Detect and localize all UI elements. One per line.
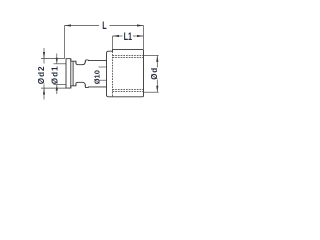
tip cylinder right edge (70, 59, 72, 88)
hidden thread line top (113, 54, 144, 56)
dim d2 line (43, 48, 45, 64)
arrow L right (137, 24, 144, 26)
dim D ext top (144, 54, 159, 56)
arrow d1 bottom (56, 85, 58, 91)
dim L1 extension left (112, 36, 114, 49)
hidden bore line top (113, 56, 144, 58)
dim d1 line (56, 54, 58, 64)
arrow L1 left (113, 35, 120, 37)
dim d1 ext bottom (54, 84, 67, 86)
ridge right edge (88, 60, 90, 62)
collar flat edge bottom (99, 79, 107, 81)
arrow D bottom (156, 86, 158, 93)
svg-text:Ød2: Ød2 (37, 66, 46, 85)
svg-text:L1: L1 (124, 31, 132, 43)
neck left edge (75, 61, 77, 63)
svg-text:Ø10: Ø10 (92, 70, 101, 84)
arrow D top (156, 55, 158, 62)
arrow d2 top (43, 52, 45, 59)
arrow d2 bottom (43, 88, 45, 95)
dim d2 ext bottom (41, 87, 66, 89)
collar flat edge top (99, 66, 107, 68)
dim L extension right (143, 26, 145, 50)
dim D ext bottom (144, 91, 159, 93)
dim L line (65, 25, 100, 27)
svg-text:L: L (102, 20, 107, 32)
hidden thread line bottom (113, 90, 144, 92)
svg-text:Ød1: Ød1 (51, 66, 60, 85)
ridge left edge (84, 61, 86, 63)
hidden thread end vertical (112, 51, 114, 96)
arrow d1 top (56, 58, 58, 64)
collar / ring boundary (106, 61, 108, 87)
svg-text:Ød: Ød (150, 67, 159, 80)
dim d1 ext top (54, 63, 67, 65)
step groove edge line (72, 61, 74, 86)
arrow L1 right (137, 35, 144, 37)
dim L1 line (113, 35, 123, 37)
arrow L left (65, 24, 72, 26)
dim d2 ext top (41, 58, 65, 60)
part outline: quick-coupling plug body (66, 50, 144, 97)
hidden bore line bottom (113, 89, 144, 91)
dim D line (156, 55, 158, 67)
dim L extension left (64, 26, 66, 59)
